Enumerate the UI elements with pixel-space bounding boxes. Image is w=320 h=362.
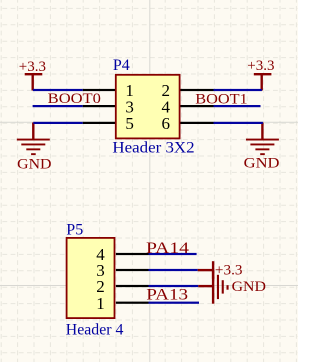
svg-text:GND: GND: [17, 156, 51, 172]
svg-text:Header 4: Header 4: [66, 322, 124, 339]
svg-text:GND: GND: [232, 279, 266, 295]
svg-text:P5: P5: [66, 221, 83, 238]
svg-text:PA13: PA13: [146, 287, 188, 304]
svg-text:GND: GND: [244, 155, 280, 171]
svg-text:6: 6: [162, 114, 171, 133]
svg-text:+3.3: +3.3: [215, 262, 243, 278]
svg-text:P4: P4: [113, 57, 130, 74]
svg-text:PA14: PA14: [146, 240, 189, 257]
svg-text:5: 5: [125, 114, 133, 133]
svg-text:+3.3: +3.3: [19, 59, 46, 75]
svg-text:BOOT1: BOOT1: [195, 91, 247, 107]
svg-text:1: 1: [96, 294, 105, 313]
svg-text:BOOT0: BOOT0: [48, 91, 101, 107]
svg-text:+3.3: +3.3: [247, 58, 274, 74]
svg-text:Header 3X2: Header 3X2: [112, 140, 194, 157]
